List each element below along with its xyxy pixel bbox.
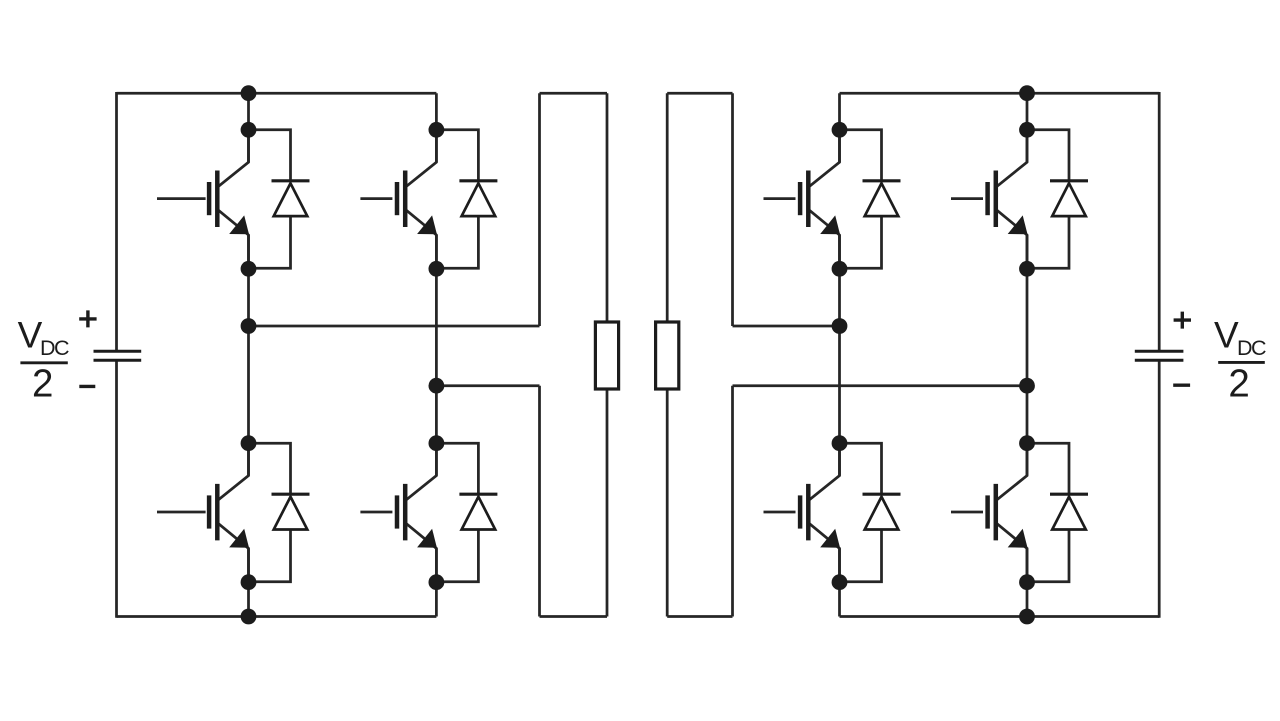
svg-text:V: V: [1214, 315, 1239, 356]
svg-text:2: 2: [1228, 363, 1249, 406]
svg-text:DC: DC: [1237, 336, 1266, 360]
svg-text:V: V: [18, 315, 43, 356]
svg-text:2: 2: [32, 363, 53, 406]
svg-text:DC: DC: [40, 336, 69, 360]
